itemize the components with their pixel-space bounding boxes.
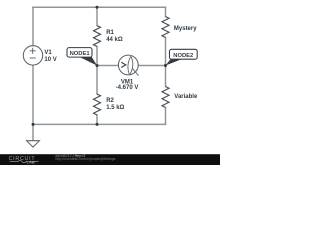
svg-text:R2: R2 xyxy=(106,98,114,104)
wire top horizontal xyxy=(33,6,166,8)
label V1 value xyxy=(44,50,56,63)
node A junction (NODE1) xyxy=(96,64,99,67)
wire mystery bottom lead xyxy=(165,38,167,66)
resistor R2 xyxy=(94,94,101,115)
svg-text:NODE1: NODE1 xyxy=(70,51,91,57)
resistor Variable xyxy=(162,87,169,108)
wire variable top lead xyxy=(165,66,167,87)
wire node1 to voltmeter xyxy=(97,65,118,67)
footer bar xyxy=(0,154,220,165)
node NODE2 flag xyxy=(166,49,198,65)
svg-text:-4.670 V: -4.670 V xyxy=(116,85,139,91)
CircuitLab logo xyxy=(9,156,39,165)
resistor Mystery xyxy=(162,17,169,38)
svg-text:1.5 kΩ: 1.5 kΩ xyxy=(106,105,124,111)
wire variable bottom lead xyxy=(165,108,167,125)
svg-text:NODE2: NODE2 xyxy=(173,53,193,59)
node NODE1 flag xyxy=(67,48,97,66)
VM1 meter arcs xyxy=(128,56,131,74)
VM1 needle xyxy=(132,69,138,76)
wire V1 top lead xyxy=(32,7,34,46)
svg-text:Mystery: Mystery xyxy=(174,26,197,32)
svg-text:LAB: LAB xyxy=(27,160,35,165)
resistor R1 xyxy=(94,26,101,47)
wire R1 bottom lead xyxy=(96,47,98,66)
svg-text:R1: R1 xyxy=(106,30,114,36)
svg-text:http://circuitlab.com/c/p/cate: http://circuitlab.com/c/p/cateq3t5vfcga xyxy=(55,157,115,161)
svg-text:44 kΩ: 44 kΩ xyxy=(106,37,123,43)
wire V1 bottom lead xyxy=(32,65,34,124)
wire mystery top lead xyxy=(165,7,167,16)
junction ground xyxy=(32,123,35,126)
wire R2 bottom lead xyxy=(96,115,98,124)
voltmeter VM1 xyxy=(118,55,138,76)
svg-text:Variable: Variable xyxy=(174,94,198,100)
wire R1 top lead xyxy=(96,7,98,25)
V1 plus sign xyxy=(30,48,36,58)
label R2 value xyxy=(106,98,124,111)
wire ground stub xyxy=(32,124,34,140)
svg-text:10 V: 10 V xyxy=(44,57,56,63)
junction R2 bottom xyxy=(96,123,99,126)
junction at R1 top xyxy=(96,6,99,9)
wire voltmeter to node2 xyxy=(138,65,165,67)
svg-text:V1: V1 xyxy=(44,50,52,56)
wire bottom horizontal xyxy=(33,123,166,125)
ground xyxy=(27,141,40,147)
node B junction (NODE2) xyxy=(164,64,167,67)
VM1 chevron xyxy=(121,62,126,67)
voltage source V1 xyxy=(23,46,42,65)
wire R2 top lead xyxy=(96,66,98,95)
V1 minus sign xyxy=(30,57,36,59)
label R1 value xyxy=(106,30,123,43)
label VM1 value xyxy=(116,79,139,91)
